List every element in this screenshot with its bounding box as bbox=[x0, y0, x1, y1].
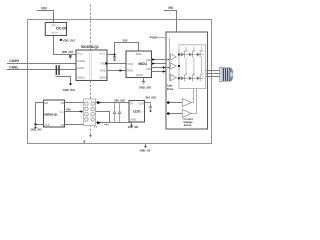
svg-text:DC-DC: DC-DC bbox=[56, 27, 67, 31]
wire MCU feedback bbox=[152, 71, 167, 73]
wire motor phase W bbox=[206, 76, 220, 78]
arrowhead bus row1 bbox=[168, 59, 170, 61]
arrow RXD bbox=[120, 69, 123, 72]
svg-text:D2: D2 bbox=[61, 123, 65, 127]
junction dot sense2 bbox=[167, 112, 170, 115]
wire D2 to transformer bbox=[65, 124, 84, 126]
svg-text:SN6505-Q1: SN6505-Q1 bbox=[44, 112, 58, 116]
isolation dashes inside ISO1042 bbox=[88, 50, 90, 81]
svg-text:3V3: 3V3 bbox=[123, 38, 128, 42]
svg-text:GND2: GND2 bbox=[99, 76, 107, 80]
wire transformer secondary centre bbox=[96, 112, 110, 123]
svg-text:CANH: CANH bbox=[77, 59, 85, 63]
transformer T1 bbox=[84, 99, 96, 126]
wire LDO ground bbox=[131, 122, 133, 125]
transistor Q3 bbox=[197, 50, 203, 58]
capacitor C1 (Vcc1 decoupling) bbox=[69, 55, 72, 57]
svg-text:ADC: ADC bbox=[146, 68, 151, 71]
arrowhead bus row3 bbox=[168, 67, 170, 69]
ground (SN6505) bbox=[35, 125, 37, 128]
svg-text:ISO1042-Q1: ISO1042-Q1 bbox=[81, 45, 99, 49]
capacitor C4 bbox=[118, 103, 121, 123]
svg-text:GND_3V3: GND_3V3 bbox=[31, 129, 43, 132]
phase wires inside bbox=[186, 47, 202, 76]
svg-text:VM: VM bbox=[168, 6, 173, 10]
arrow secondary bottom bbox=[97, 121, 101, 125]
ground (MCU) bbox=[142, 82, 145, 84]
wire sense2 output up bbox=[192, 89, 197, 114]
microcontroller MCU bbox=[126, 51, 152, 78]
ground (LDO) bbox=[130, 125, 133, 127]
wire motor phase V bbox=[206, 73, 220, 75]
wire Vcc2 to 3V3 net bbox=[107, 43, 139, 55]
wire CANH bbox=[7, 63, 76, 65]
supply bus inside block bbox=[169, 38, 171, 82]
svg-text:TXD: TXD bbox=[127, 62, 132, 66]
wire gnd iso rail bbox=[96, 122, 132, 124]
wire MCU ground bbox=[143, 78, 145, 82]
ground (termination) GND_ISO bbox=[69, 83, 71, 85]
wire termination to ground bbox=[56, 77, 71, 84]
svg-text:D1: D1 bbox=[61, 101, 65, 105]
isolation barrier end arrow bbox=[89, 135, 91, 138]
wire VIN to DC-DC bbox=[37, 11, 54, 23]
svg-text:VDD_3V3: VDD_3V3 bbox=[63, 39, 75, 43]
gate driver buffer B bbox=[170, 63, 176, 69]
transistor Q4 bbox=[179, 74, 204, 82]
arrow feedback bbox=[163, 70, 166, 73]
svg-text:RXD: RXD bbox=[100, 68, 106, 72]
ground (C5) bbox=[149, 111, 152, 113]
regulator LDO bbox=[129, 101, 145, 123]
svg-text:Drive: Drive bbox=[167, 87, 174, 91]
transistor Q5 bbox=[189, 74, 195, 82]
transistor Q1 bbox=[179, 50, 204, 58]
node VDD_3V3 marker bbox=[60, 39, 62, 41]
op-amp sense2 bbox=[182, 110, 191, 118]
wire motor phase U bbox=[206, 70, 220, 72]
svg-text:PWM: PWM bbox=[146, 59, 152, 62]
wire CANL bbox=[7, 69, 76, 71]
wire TXD ISO to MCU bbox=[107, 63, 126, 65]
junction dot row2 bbox=[178, 77, 180, 79]
wire MCU PWM2 to driver bbox=[152, 63, 170, 65]
junction dot SN6505 gnd bbox=[34, 123, 36, 125]
wire RXD ISO to MCU bbox=[107, 70, 126, 72]
svg-text:EN: EN bbox=[45, 101, 49, 105]
arrow secondary top bbox=[97, 101, 101, 105]
wire Vcc to transformer centre tap bbox=[65, 111, 84, 113]
svg-text:CLK: CLK bbox=[45, 123, 50, 127]
svg-text:GND1: GND1 bbox=[77, 76, 85, 80]
wire LDO output bbox=[145, 102, 151, 104]
svg-text:GND: GND bbox=[104, 124, 109, 126]
svg-text:GND_HV: GND_HV bbox=[140, 148, 151, 152]
svg-text:CANL: CANL bbox=[77, 66, 85, 70]
gate driver buffer C bbox=[170, 74, 176, 80]
motor M1 bbox=[220, 67, 234, 82]
svg-text:IN: IN bbox=[130, 101, 133, 105]
svg-text:5V0_ISO: 5V0_ISO bbox=[114, 98, 125, 102]
junction dot TXD bbox=[105, 62, 107, 64]
wire D1 to transformer bbox=[65, 102, 84, 104]
arrow PWM3 bbox=[163, 66, 166, 69]
resistor RT2 (termination) bbox=[58, 65, 60, 75]
svg-text:RXD: RXD bbox=[127, 68, 133, 72]
wire sense1 output up bbox=[192, 89, 194, 103]
arrow centre tap bbox=[79, 110, 82, 112]
ground (C1) bbox=[69, 57, 71, 59]
ground (C2) bbox=[113, 60, 116, 62]
svg-text:GND_3V3: GND_3V3 bbox=[139, 86, 152, 90]
ground tap iso side bbox=[83, 141, 85, 144]
capacitor C3 bbox=[113, 103, 116, 123]
board outline border bbox=[28, 20, 212, 144]
junction dot row mid bbox=[178, 65, 180, 67]
svg-text:GND: GND bbox=[130, 117, 136, 121]
push-pull driver SN6505-Q1 bbox=[44, 100, 65, 127]
transistor Q2 bbox=[189, 50, 195, 58]
svg-text:Sense: Sense bbox=[184, 123, 192, 127]
dc-dc converter U1 bbox=[45, 23, 66, 36]
svg-text:MCU: MCU bbox=[139, 62, 148, 66]
svg-text:PVDD: PVDD bbox=[150, 36, 157, 39]
capacitor C2 (Vcc2 decoupling) bbox=[113, 55, 116, 60]
svg-text:TXD: TXD bbox=[100, 62, 105, 66]
wire VM to driver block bbox=[164, 11, 177, 33]
wire sense input 1 bbox=[166, 102, 182, 104]
svg-text:CANH: CANH bbox=[9, 59, 19, 63]
junction dot sense1 bbox=[167, 101, 170, 104]
wire sense input 2 bbox=[166, 113, 182, 115]
isolation barrier dashed line bbox=[90, 5, 92, 136]
svg-text:OUT: OUT bbox=[139, 101, 145, 105]
capacitor C5 bbox=[149, 103, 152, 111]
wire MCU PWM3 to driver bbox=[152, 67, 170, 69]
svg-text:GND_ISO: GND_ISO bbox=[128, 127, 139, 129]
svg-text:LDO: LDO bbox=[133, 109, 141, 113]
svg-text:5V0: 5V0 bbox=[66, 108, 71, 112]
op-amp sense1 bbox=[182, 99, 191, 107]
wire VM into block bbox=[157, 37, 170, 39]
svg-text:VDD: VDD bbox=[136, 52, 142, 56]
junction dot row1 bbox=[178, 53, 180, 55]
transistor Q6 bbox=[197, 74, 203, 82]
svg-text:3V3_ISO: 3V3_ISO bbox=[145, 95, 156, 99]
junction dot Vcc2 bbox=[113, 53, 115, 55]
svg-text:GND_ISO: GND_ISO bbox=[63, 88, 75, 92]
svg-text:GPIO: GPIO bbox=[136, 73, 143, 77]
driver block U2 (gate driver + power stage) bbox=[166, 32, 208, 129]
resistor RT1 (termination) bbox=[56, 65, 58, 75]
wire transformer secondary top bbox=[96, 102, 130, 104]
power stage inner box bbox=[179, 45, 206, 89]
wire DC-DC output down bbox=[54, 36, 77, 55]
wire MCU PWM1 to driver bbox=[152, 59, 170, 61]
svg-text:VDD_3V3: VDD_3V3 bbox=[62, 51, 74, 54]
arrow PWM1 bbox=[152, 58, 155, 60]
wire SN6505 EN loop bbox=[36, 103, 44, 125]
arrow PWM2 bbox=[152, 62, 155, 64]
ground tap bottom border bbox=[145, 144, 147, 147]
gate driver buffer A bbox=[170, 54, 176, 60]
